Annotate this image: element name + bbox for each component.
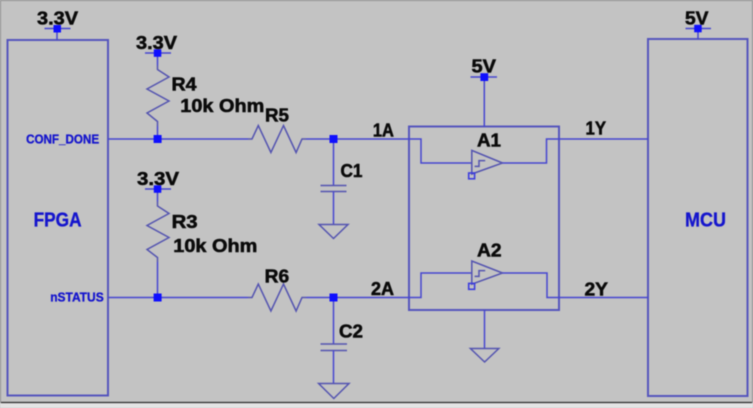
svg-text:5V: 5V — [685, 9, 709, 29]
svg-text:3.3V: 3.3V — [37, 9, 78, 29]
svg-text:A2: A2 — [477, 241, 502, 261]
svg-text:1Y: 1Y — [586, 119, 607, 139]
svg-text:2Y: 2Y — [585, 280, 609, 300]
svg-text:C2: C2 — [339, 322, 363, 342]
svg-text:nSTATUS: nSTATUS — [50, 290, 104, 305]
svg-text:FPGA: FPGA — [34, 210, 82, 232]
svg-text:10k Ohm: 10k Ohm — [173, 236, 257, 256]
svg-text:CONF_DONE: CONF_DONE — [26, 132, 99, 147]
svg-text:R6: R6 — [265, 267, 290, 287]
svg-text:MCU: MCU — [685, 210, 726, 232]
svg-text:5V: 5V — [472, 57, 497, 77]
svg-text:C1: C1 — [341, 161, 363, 181]
svg-text:10k Ohm: 10k Ohm — [180, 96, 264, 116]
svg-text:1A: 1A — [373, 121, 394, 141]
svg-text:R3: R3 — [172, 212, 198, 232]
svg-text:2A: 2A — [371, 279, 394, 299]
svg-text:3.3V: 3.3V — [136, 33, 177, 53]
svg-text:3.3V: 3.3V — [137, 169, 179, 189]
svg-text:R4: R4 — [172, 75, 197, 95]
svg-text:A1: A1 — [477, 131, 501, 151]
svg-text:R5: R5 — [265, 106, 289, 126]
